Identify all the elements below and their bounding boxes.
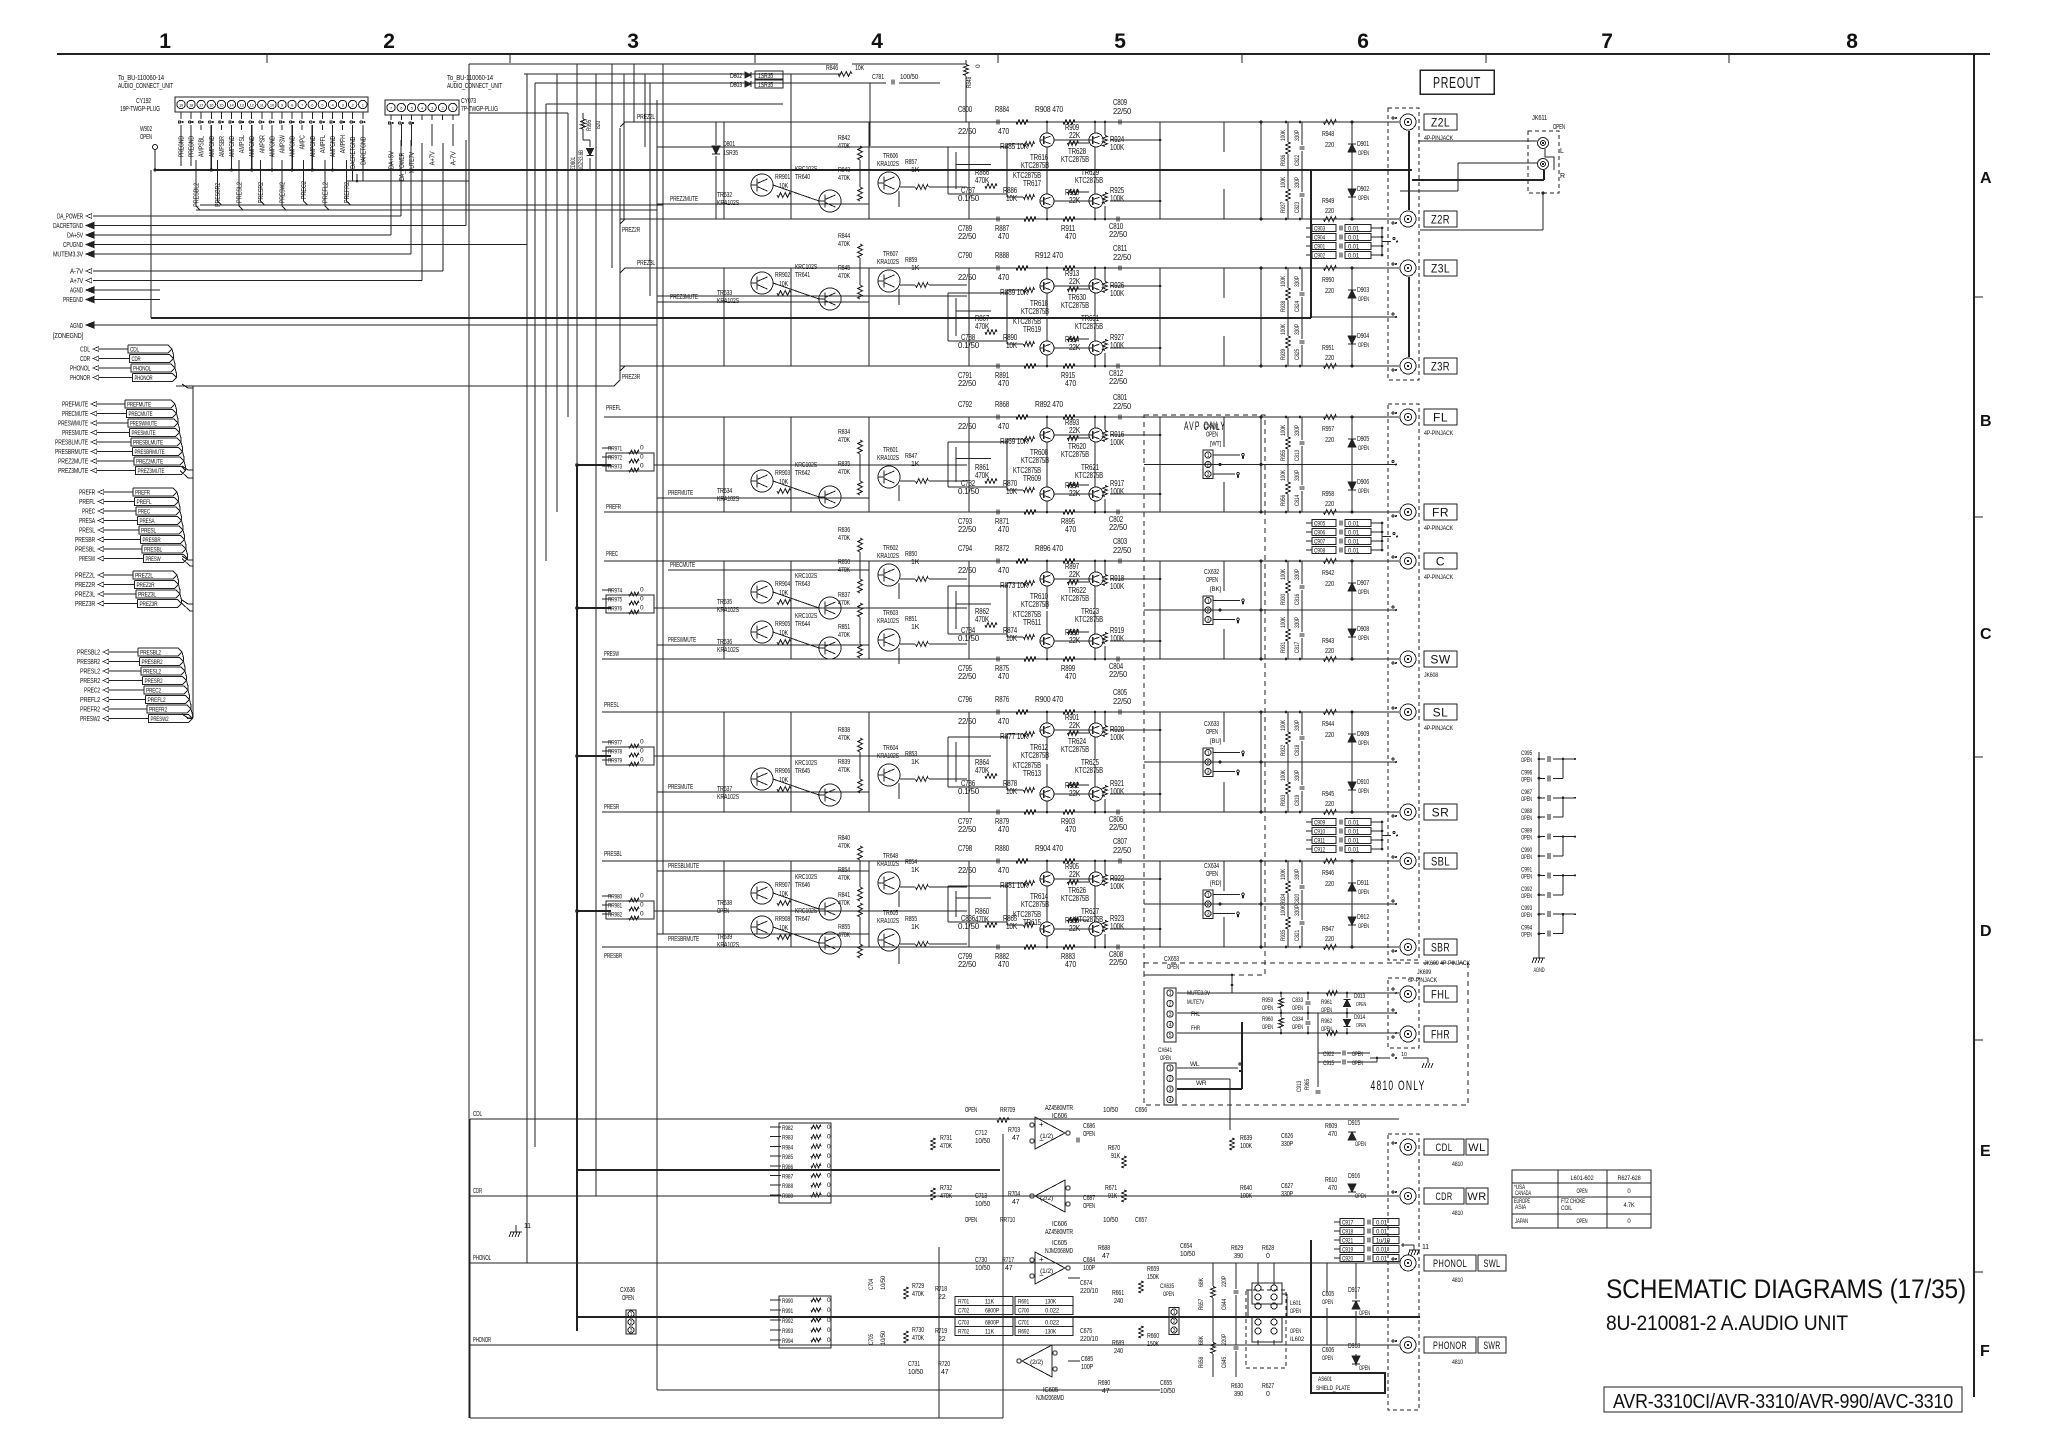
svg-text:11K: 11K [985,1299,995,1306]
svg-text:R986: R986 [782,1164,793,1171]
svg-text:TR641: TR641 [795,272,810,279]
svg-text:R936: R936 [1280,155,1287,166]
svg-text:10/50: 10/50 [880,1330,887,1345]
svg-text:OPEN: OPEN [1206,871,1218,878]
svg-text:R627-628: R627-628 [1618,1175,1641,1182]
svg-text:4: 4 [1169,1022,1172,1028]
svg-text:R850: R850 [838,559,850,566]
svg-text:PRESWMUTE: PRESWMUTE [58,419,88,428]
svg-text:C908: C908 [1314,548,1325,555]
svg-text:JK699: JK699 [1417,969,1431,976]
svg-text:RR981: RR981 [608,903,622,910]
svg-text:OPEN: OPEN [1358,196,1369,202]
svg-text:100K: 100K [1110,634,1125,643]
svg-text:D902: D902 [1357,186,1369,193]
svg-text:CDL: CDL [473,1111,482,1118]
svg-text:R876: R876 [995,695,1010,704]
svg-text:0: 0 [640,463,644,470]
svg-text:IL602: IL602 [1290,1336,1305,1343]
svg-text:C820: C820 [1294,894,1301,905]
svg-text:CDR: CDR [473,1188,482,1195]
svg-text:MUTE3.3V: MUTE3.3V [1187,990,1211,997]
svg-text:PREC: PREC [606,551,618,558]
svg-text:OPEN: OPEN [1355,1194,1366,1200]
svg-text:NJM2068MD: NJM2068MD [1045,1248,1073,1255]
svg-text:KTC2875B: KTC2875B [1075,766,1103,775]
svg-text:C991: C991 [1521,867,1533,873]
svg-text:22K: 22K [1069,131,1081,140]
svg-text:PRESBLMUTE: PRESBLMUTE [668,863,699,870]
svg-text:PREFMUTE: PREFMUTE [127,402,151,409]
svg-text:C906: C906 [1314,530,1325,537]
svg-text:TR611: TR611 [1023,618,1042,627]
svg-text:470K: 470K [838,600,850,607]
svg-text:22/50: 22/50 [1113,402,1132,411]
svg-text:PRESW: PRESW [146,556,161,563]
svg-text:PRESWMUTE: PRESWMUTE [130,421,157,428]
svg-text:OPEN: OPEN [1321,1008,1332,1014]
svg-text:470: 470 [998,525,1010,534]
svg-text:C905: C905 [1314,521,1325,528]
svg-text:PRESR2: PRESR2 [145,678,163,685]
svg-text:C685: C685 [1081,1356,1093,1363]
svg-text:330P: 330P [1294,470,1301,481]
svg-text:22/50: 22/50 [1109,823,1128,832]
svg-text:PRESA: PRESA [79,516,95,525]
svg-text:10K: 10K [779,891,788,898]
svg-text:100/50: 100/50 [900,74,918,81]
svg-text:1K: 1K [911,461,920,468]
svg-text:PREZ2MUTE: PREZ2MUTE [670,196,698,203]
svg-text:330P: 330P [1281,1141,1293,1148]
svg-text:R839: R839 [838,759,850,766]
svg-text:TR638: TR638 [717,900,732,907]
svg-text:PRESW: PRESW [604,651,619,658]
svg-text:TR647: TR647 [795,916,810,923]
svg-text:AMPSW: AMPSW [280,135,287,153]
svg-text:PHONOL: PHONOL [70,364,90,373]
svg-text:R960: R960 [1262,1016,1273,1023]
svg-text:C995: C995 [1521,751,1533,757]
svg-text:KRA102S: KRA102S [877,259,899,266]
svg-text:100K: 100K [1110,143,1125,152]
svg-text:PRESBL2: PRESBL2 [77,648,100,657]
svg-text:C921: C921 [1342,1238,1353,1245]
svg-text:R884: R884 [995,105,1010,114]
svg-text:470: 470 [1065,960,1077,969]
svg-text:22K: 22K [1069,570,1081,579]
svg-text:130K: 130K [1045,1299,1057,1306]
svg-text:R692: R692 [1018,1329,1029,1336]
svg-text:PHONOL: PHONOL [1433,1258,1467,1270]
svg-text:PRESWMUTE: PRESWMUTE [668,637,696,644]
svg-text:KTC2875B: KTC2875B [1021,307,1049,316]
svg-text:OPEN: OPEN [1359,1366,1370,1372]
svg-text:330P: 330P [1294,425,1301,436]
svg-text:0.1/50: 0.1/50 [958,487,980,496]
svg-text:47: 47 [1005,1265,1013,1272]
svg-text:R840: R840 [838,835,850,842]
svg-text:PRESMUTE: PRESMUTE [668,784,693,791]
svg-text:C790: C790 [958,251,973,260]
svg-text:R958: R958 [1322,491,1334,498]
svg-text:W902: W902 [140,126,152,133]
svg-text:R987: R987 [782,1174,793,1181]
svg-text:TR602: TR602 [883,545,898,552]
svg-text:C627: C627 [1281,1183,1293,1190]
svg-text:220: 220 [1325,936,1334,943]
svg-text:KTC2875B: KTC2875B [1021,456,1049,465]
svg-text:DACRETGND: DACRETGND [350,137,357,169]
svg-text:CDL: CDL [1436,1142,1453,1154]
svg-text:0: 0 [827,1337,831,1344]
svg-text:1SR35: 1SR35 [758,73,773,80]
svg-text:PREFL2: PREFL2 [323,182,330,203]
svg-text:6: 6 [1357,30,1368,53]
svg-text:L601-602: L601-602 [1571,1175,1595,1182]
svg-text:R836: R836 [838,527,850,534]
svg-text:330P: 330P [1294,569,1301,580]
svg-text:AMPGND: AMPGND [269,136,276,157]
svg-text:OPEN: OPEN [1352,1061,1363,1067]
svg-text:R989: R989 [782,1193,793,1200]
svg-text:0.01: 0.01 [1348,829,1360,836]
svg-text:2: 2 [383,30,394,53]
svg-text:R868: R868 [995,400,1010,409]
svg-text:1: 1 [630,1312,633,1318]
svg-text:0.01: 0.01 [1376,1247,1388,1254]
svg-text:100K: 100K [1110,922,1125,931]
svg-text:0.01: 0.01 [1348,253,1360,260]
svg-text:PREZ3MUTE: PREZ3MUTE [670,294,698,301]
svg-text:R965: R965 [1305,1078,1311,1090]
svg-text:22/50: 22/50 [1109,958,1128,967]
svg-text:22/50: 22/50 [1113,253,1132,262]
svg-text:PRESW: PRESW [79,554,96,563]
svg-text:OPEN: OPEN [1292,1006,1303,1012]
svg-text:PRESL: PRESL [141,528,156,535]
svg-text:C913: C913 [1297,1080,1303,1092]
svg-text:OPEN: OPEN [1358,741,1369,747]
svg-text:FR: FR [1432,505,1449,519]
svg-text:PREZ2MUTE: PREZ2MUTE [58,457,88,466]
svg-text:R912 470: R912 470 [1035,251,1064,260]
svg-text:OPEN: OPEN [1322,1299,1333,1306]
svg-text:R854: R854 [838,867,850,874]
svg-text:C713: C713 [975,1193,987,1200]
svg-text:OPEN: OPEN [1521,874,1532,880]
svg-text:C644: C644 [1221,1299,1228,1310]
svg-text:0.01: 0.01 [1348,521,1360,528]
svg-text:4P-PINJACK: 4P-PINJACK [1424,135,1454,142]
svg-text:RR901: RR901 [775,174,790,181]
svg-text:PRESL2: PRESL2 [80,667,100,676]
svg-text:A+7V: A+7V [70,276,83,285]
svg-text:R855: R855 [905,916,917,923]
svg-text:KRA102S: KRA102S [877,161,899,168]
svg-text:PRESBR2: PRESBR2 [142,659,163,666]
svg-text:OPEN: OPEN [1521,758,1532,764]
svg-text:11: 11 [1422,1244,1429,1251]
svg-text:DA+5V: DA+5V [67,231,83,240]
svg-text:KRA102S: KRA102S [877,918,899,925]
svg-text:470K: 470K [912,1291,924,1298]
svg-text:RR971: RR971 [608,446,622,453]
svg-text:RR979: RR979 [608,758,622,765]
svg-text:5: 5 [1169,1033,1172,1039]
svg-text:10/50: 10/50 [880,1275,887,1290]
svg-text:L601: L601 [1290,1300,1301,1307]
svg-text:PRESBL2: PRESBL2 [140,650,161,657]
svg-text:PHONOR: PHONOR [1433,1340,1467,1352]
svg-text:PREFL2: PREFL2 [80,695,100,704]
svg-text:R609: R609 [1325,1123,1337,1130]
svg-text:PREFR2: PREFR2 [149,707,167,714]
svg-text:A: A [1980,170,1992,187]
svg-text:100K: 100K [1240,1193,1252,1200]
svg-text:PRESW2: PRESW2 [151,716,169,723]
svg-text:R854: R854 [905,859,917,866]
svg-text:AMPGND: AMPGND [209,136,216,157]
svg-text:C988: C988 [1521,809,1533,815]
svg-text:470K: 470K [838,900,850,907]
svg-text:22/50: 22/50 [958,525,977,534]
svg-text:R892 470: R892 470 [1035,400,1064,409]
svg-text:D910: D910 [1357,779,1369,786]
svg-text:100K: 100K [1110,582,1125,591]
svg-text:R640: R640 [1240,1185,1252,1192]
svg-text:PREC2: PREC2 [301,181,308,199]
svg-text:OPEN: OPEN [1262,1025,1273,1031]
svg-text:C807: C807 [1113,837,1128,846]
svg-text:2: 2 [630,1320,633,1326]
svg-text:SWR: SWR [1484,1340,1501,1352]
svg-text:3: 3 [1173,1328,1176,1334]
svg-text:3: 3 [1207,472,1210,478]
svg-text:SR: SR [1432,805,1450,819]
svg-text:22/50: 22/50 [958,422,977,431]
svg-text:R961: R961 [1321,999,1332,1006]
svg-text:AMPSBL: AMPSBL [199,136,206,157]
svg-text:100P: 100P [1081,1364,1093,1371]
svg-text:22: 22 [938,1336,946,1343]
svg-text:47: 47 [1012,1135,1020,1142]
svg-text:0.01: 0.01 [1348,530,1360,537]
svg-text:1SR35: 1SR35 [758,82,773,89]
svg-text:AGND: AGND [70,321,83,330]
svg-text:0: 0 [827,1134,831,1141]
svg-text:10K: 10K [779,630,788,637]
svg-text:4810: 4810 [1452,1161,1463,1168]
svg-text:5: 5 [1114,30,1126,53]
svg-text:OPEN: OPEN [1321,1027,1332,1033]
svg-text:470K: 470K [940,1193,952,1200]
svg-text:PRECMUTE: PRECMUTE [670,562,695,569]
svg-text:PREZ3L: PREZ3L [138,592,156,599]
svg-text:R946: R946 [1322,870,1334,877]
svg-text:C992: C992 [1521,887,1533,893]
svg-text:AMPGND: AMPGND [249,136,256,157]
svg-text:220: 220 [1325,501,1334,508]
svg-text:390: 390 [1234,1253,1243,1260]
svg-text:C687: C687 [1083,1195,1095,1202]
svg-text:CX632: CX632 [1204,569,1219,576]
svg-text:PHONOL: PHONOL [133,366,151,373]
svg-text:PRESBLMUTE: PRESBLMUTE [133,440,163,447]
svg-text:R843: R843 [838,167,850,174]
svg-text:91K: 91K [1111,1153,1120,1160]
svg-text:KRA102S: KRA102S [717,496,739,503]
svg-text:100K: 100K [1280,769,1287,781]
svg-text:CX636: CX636 [620,1287,635,1294]
svg-text:CX635: CX635 [1160,1283,1174,1290]
svg-text:1: 1 [1169,1066,1172,1072]
svg-text:22/50: 22/50 [958,566,977,575]
svg-text:1K: 1K [911,867,920,874]
svg-text:4.7K: 4.7K [1624,1203,1635,1209]
svg-text:AMPGND: AMPGND [290,136,297,157]
svg-text:Z3R: Z3R [1431,359,1450,373]
svg-text:R962: R962 [1321,1018,1332,1025]
svg-text:0: 0 [827,1192,831,1199]
svg-text:0.022: 0.022 [1045,1320,1060,1327]
svg-text:22K: 22K [1069,721,1081,730]
svg-text:R729: R729 [912,1283,924,1290]
svg-text:100K: 100K [1240,1143,1252,1150]
svg-text:22/50: 22/50 [958,273,977,282]
svg-text:11: 11 [524,1223,531,1230]
svg-text:KRC102S: KRC102S [795,613,817,620]
svg-text:PRESR2: PRESR2 [258,182,265,203]
svg-text:220: 220 [1325,355,1334,362]
svg-text:F: F [1980,1343,1990,1360]
svg-text:C654: C654 [1180,1243,1192,1250]
svg-text:R877 10K: R877 10K [1000,732,1029,741]
svg-text:R949: R949 [1322,198,1334,205]
svg-text:MUTE7V: MUTE7V [409,152,416,173]
svg-text:C712: C712 [975,1130,987,1137]
svg-text:2: 2 [1207,608,1210,614]
svg-text:(2/2): (2/2) [1040,1196,1053,1202]
svg-text:470: 470 [1065,672,1077,681]
svg-text:OPEN: OPEN [1358,924,1369,930]
svg-text:C833: C833 [1292,997,1303,1004]
svg-text:AS601: AS601 [1318,1376,1332,1383]
svg-text:0.01: 0.01 [1348,235,1360,242]
svg-text:PRESBR: PRESBR [604,953,622,960]
svg-text:470: 470 [998,825,1010,834]
svg-text:TR640: TR640 [795,174,810,181]
svg-text:470: 470 [998,379,1010,388]
svg-text:330P: 330P [1294,905,1301,916]
svg-text:R660: R660 [1147,1333,1159,1340]
svg-text:TR603: TR603 [883,610,898,617]
svg-text:330P: 330P [1294,770,1301,781]
svg-text:10K: 10K [1006,634,1018,643]
svg-text:[WT]: [WT] [1210,441,1221,448]
svg-text:PREZ3R: PREZ3R [75,599,96,608]
svg-text:D908: D908 [1357,626,1369,633]
svg-text:R982: R982 [782,1125,793,1132]
svg-text:AZ4580MTR: AZ4580MTR [1045,1105,1073,1112]
svg-text:Z2R: Z2R [1431,212,1450,226]
svg-text:TR634: TR634 [717,488,732,495]
svg-text:R627: R627 [1262,1383,1274,1390]
svg-text:R841: R841 [838,892,850,899]
svg-text:TR644: TR644 [795,621,810,628]
svg-text:D917: D917 [1348,1287,1360,1294]
svg-text:PREC: PREC [82,507,96,516]
svg-text:C920: C920 [1342,1256,1353,1263]
svg-text:RR980: RR980 [608,894,622,901]
svg-text:0: 0 [827,1163,831,1170]
svg-text:3: 3 [1207,911,1210,917]
svg-text:470K: 470K [838,535,850,542]
svg-text:OPEN: OPEN [1358,343,1369,349]
svg-text:220/10: 220/10 [1080,1336,1098,1343]
svg-text:CDL: CDL [80,345,90,354]
svg-text:+: + [1039,1255,1044,1264]
svg-text:PRESBR: PRESBR [75,535,96,544]
svg-text:(1/2): (1/2) [1040,1134,1053,1140]
svg-text:IC606: IC606 [1052,1221,1067,1228]
svg-text:OPEN: OPEN [1521,913,1532,919]
svg-text:R857: R857 [905,159,917,166]
svg-text:TR646: TR646 [795,882,810,889]
svg-text:D907: D907 [1357,580,1369,587]
svg-text:OPEN: OPEN [1356,1023,1366,1029]
svg-text:100K: 100K [1110,289,1125,298]
svg-text:R859: R859 [905,257,917,264]
svg-text:22/50: 22/50 [958,127,977,136]
svg-text:3: 3 [1169,1012,1172,1018]
svg-text:KTC2875B: KTC2875B [1061,745,1089,754]
svg-text:0: 0 [640,596,644,603]
svg-text:4P-PINJACK: 4P-PINJACK [1424,430,1454,437]
svg-text:C824: C824 [1294,301,1301,312]
svg-text:A-7V: A-7V [70,267,83,276]
svg-text:R718: R718 [935,1286,947,1293]
svg-text:150K: 150K [1147,1341,1159,1348]
svg-text:PREOUT: PREOUT [1433,75,1481,92]
svg-text:470K: 470K [838,469,850,476]
svg-text:C781: C781 [872,74,884,81]
svg-text:CDR: CDR [132,356,141,363]
svg-text:D903: D903 [1357,287,1369,294]
svg-text:PRESBRMUTE: PRESBRMUTE [135,449,165,456]
svg-text:PREZ3L: PREZ3L [75,590,95,599]
svg-text:KTC2875B: KTC2875B [1061,301,1089,310]
svg-text:[BK]: [BK] [1210,586,1221,593]
svg-text:PRESA: PRESA [140,518,155,525]
svg-text:JK608: JK608 [1424,672,1438,679]
svg-text:C: C [1980,626,1992,643]
svg-text:C814: C814 [1294,495,1301,506]
svg-text:R935: R935 [1280,930,1287,941]
svg-text:22/50: 22/50 [1113,846,1132,855]
svg-text:OPEN: OPEN [1083,1203,1095,1210]
svg-text:PRESBL: PRESBL [604,851,622,858]
svg-text:0: 0 [640,445,644,452]
svg-text:100K: 100K [1110,438,1125,447]
svg-text:C686: C686 [1083,1123,1095,1130]
svg-text:TR617: TR617 [1023,179,1042,188]
svg-text:R730: R730 [912,1327,924,1334]
svg-text:100K: 100K [1110,733,1125,742]
svg-text:220/10: 220/10 [1080,1288,1098,1295]
svg-text:AUDIO_CONNECT_UNIT: AUDIO_CONNECT_UNIT [447,83,503,90]
svg-text:FHR: FHR [1191,1025,1200,1032]
